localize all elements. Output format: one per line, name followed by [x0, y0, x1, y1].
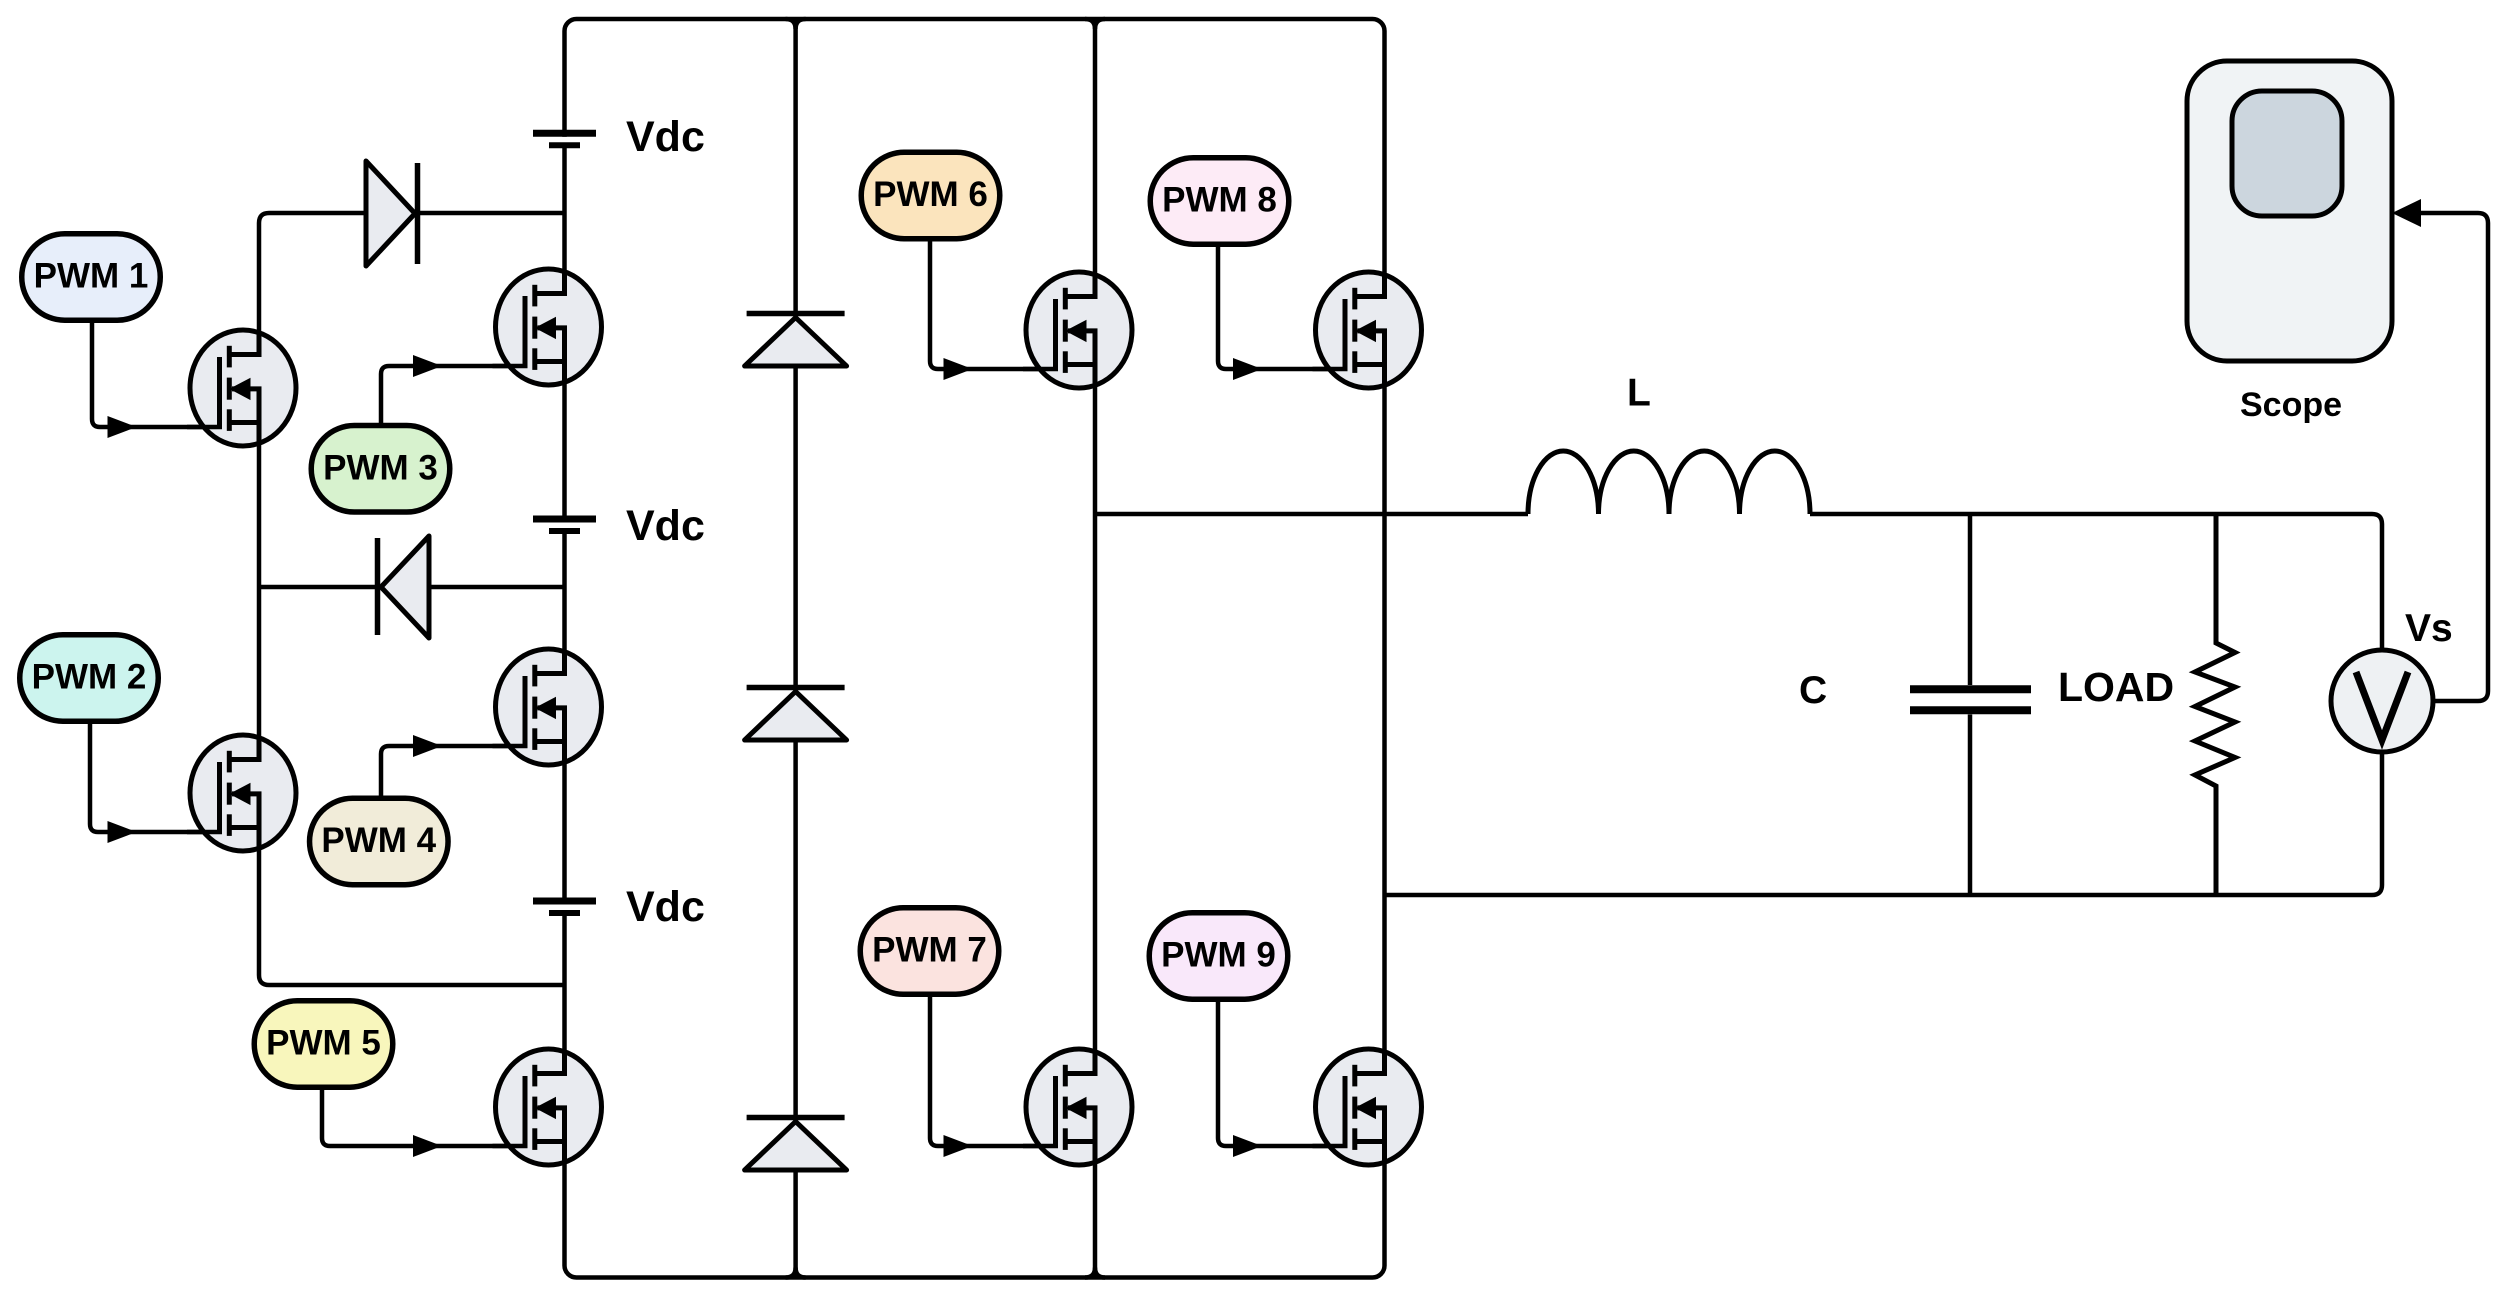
svg-text:L: L: [1627, 372, 1651, 415]
svg-text:Vdc: Vdc: [626, 883, 705, 931]
svg-text:PWM 3: PWM 3: [323, 448, 438, 487]
svg-text:PWM 7: PWM 7: [872, 931, 987, 970]
svg-text:PWM 1: PWM 1: [34, 257, 149, 296]
svg-text:PWM 5: PWM 5: [266, 1024, 381, 1063]
svg-text:LOAD: LOAD: [2058, 664, 2174, 710]
svg-text:PWM 2: PWM 2: [32, 658, 147, 697]
svg-text:Vdc: Vdc: [626, 113, 705, 161]
svg-text:PWM 9: PWM 9: [1161, 936, 1276, 975]
svg-text:Scope: Scope: [2240, 386, 2342, 424]
svg-text:PWM 8: PWM 8: [1162, 181, 1277, 220]
svg-text:Vdc: Vdc: [626, 502, 705, 550]
svg-text:PWM 6: PWM 6: [873, 175, 988, 214]
svg-text:C: C: [1799, 669, 1827, 712]
svg-text:PWM 4: PWM 4: [321, 821, 436, 860]
svg-text:Vs: Vs: [2405, 607, 2453, 650]
